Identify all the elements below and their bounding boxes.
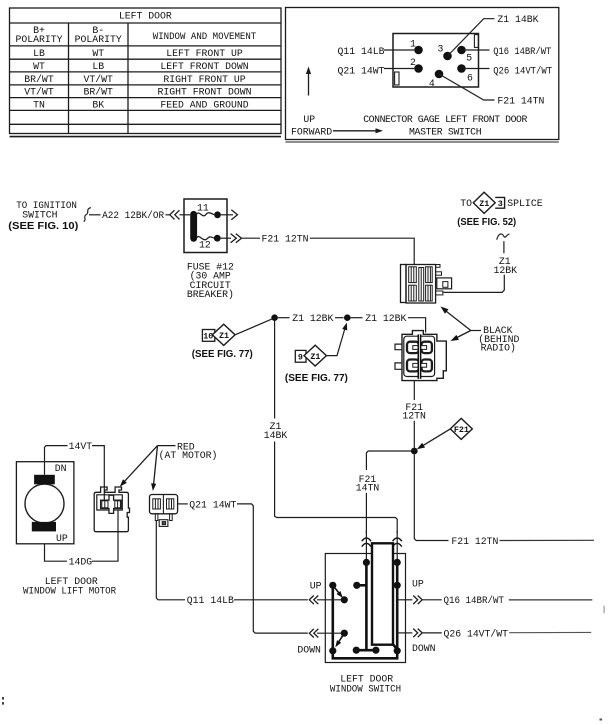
svg-text:RADIO): RADIO): [481, 342, 516, 353]
connector gage right notch: [474, 35, 478, 48]
svg-text:Q11 14LB: Q11 14LB: [338, 46, 385, 57]
svg-text:RIGHT FRONT UP: RIGHT FRONT UP: [163, 74, 245, 85]
arrow to 2-way mini connector: [154, 446, 158, 485]
svg-text:F21: F21: [454, 425, 469, 435]
svg-text:Q11 14LB: Q11 14LB: [187, 595, 234, 606]
switch right bus Z1: [396, 562, 399, 651]
switch down contact lever: [338, 633, 344, 643]
svg-text:UP: UP: [56, 533, 68, 544]
svg-text:2: 2: [410, 57, 416, 68]
svg-text:WT: WT: [92, 48, 104, 59]
svg-text:DN: DN: [55, 463, 67, 474]
wire Z1 12BK from splice to radio connector: [503, 241, 505, 253]
wire F21 14TN from junction to switch: [366, 451, 411, 470]
svg-text:WINDOW SWITCH: WINDOW SWITCH: [330, 683, 401, 694]
wire Z1 12BK run: [278, 317, 290, 319]
motor armature circle: [25, 484, 64, 523]
svg-text:6: 6: [467, 72, 473, 83]
table: left door polarity table: [10, 8, 282, 137]
wire Q11 14LB from mini connector to switch: [156, 521, 185, 600]
svg-text:DOWN: DOWN: [297, 644, 321, 655]
fuse bottom terminal: [214, 235, 221, 242]
breaker wave to bottom terminal: [197, 237, 214, 240]
wire Z1 14BK vertical to switch: [274, 321, 276, 419]
4-way connector pins: [407, 342, 432, 372]
svg-text:(SEE FIG. 77): (SEE FIG. 77): [192, 349, 253, 360]
svg-text:POLARITY: POLARITY: [15, 34, 62, 45]
svg-text:(SEE FIG. 10): (SEE FIG. 10): [8, 221, 78, 232]
svg-text:14DG: 14DG: [69, 557, 93, 568]
2-way motor connector: [94, 487, 129, 532]
wire pin 3 to Z1 14BK: [448, 19, 495, 56]
svg-text:F21 14TN: F21 14TN: [497, 95, 544, 106]
wire Q11 14LB to pin 1: [384, 49, 414, 51]
svg-text:VT/WT: VT/WT: [83, 74, 113, 85]
wire F21 12TN from fuse to radio connector: [242, 237, 261, 239]
svg-text:(AT MOTOR): (AT MOTOR): [159, 450, 218, 461]
svg-text:3: 3: [498, 199, 503, 209]
switch left bus: [331, 585, 334, 651]
pin 6: [457, 64, 466, 73]
svg-text:DOWN: DOWN: [412, 643, 436, 654]
arrow to radio connector: [444, 310, 471, 331]
window switch box: [325, 554, 405, 663]
svg-text:12: 12: [199, 240, 211, 251]
svg-text:CONNECTOR GAGE LEFT FRONT DOOR: CONNECTOR GAGE LEFT FRONT DOOR: [363, 114, 527, 125]
window lift motor box: [16, 462, 74, 544]
svg-text:12TN: 12TN: [402, 410, 426, 421]
circuit breaker element bar: [190, 211, 197, 242]
svg-text:Q16 14BR/WT: Q16 14BR/WT: [493, 46, 551, 57]
svg-text:Z1: Z1: [479, 199, 489, 209]
svg-text:BR/WT: BR/WT: [24, 74, 54, 85]
svg-text:SWITCH: SWITCH: [22, 210, 57, 221]
svg-text:POLARITY: POLARITY: [75, 34, 122, 45]
label red at motor: [158, 445, 176, 447]
wire pin 5 to Q16 14BR/WT: [466, 49, 490, 51]
wire break squiggle on Z1 lead: [497, 234, 510, 240]
svg-text:14TN: 14TN: [356, 482, 380, 493]
svg-text:12BK: 12BK: [494, 265, 518, 276]
svg-text:Q26 14VT/WT: Q26 14VT/WT: [444, 628, 509, 639]
splice number box 3: [495, 197, 504, 208]
switch actuator slide: [372, 543, 393, 644]
junction node Z1 splice point 1: [271, 314, 278, 321]
svg-text:SPLICE: SPLICE: [507, 198, 542, 209]
wire pin 4 to F21 14TN: [439, 74, 495, 100]
pin 5: [457, 46, 466, 55]
radio connector (6 cavity, black behind radio): [401, 265, 452, 304]
svg-text:LB: LB: [33, 48, 45, 59]
junction node F21: [411, 448, 418, 455]
wire break squiggle: [84, 208, 91, 222]
svg-text:11: 11: [197, 203, 209, 214]
svg-text:Z1 14BK: Z1 14BK: [497, 14, 538, 25]
splice reference diamond F21: [450, 418, 472, 439]
scan specks: [2, 697, 4, 700]
wire A22 12BK/OR: [89, 214, 101, 216]
switch up contact lever: [333, 585, 341, 595]
svg-text:(SEE FIG. 77): (SEE FIG. 77): [285, 373, 348, 384]
wire F21 12TN from junction to right: [414, 454, 448, 540]
motor brush bottom: [32, 522, 56, 532]
arrow to 2-way connector: [123, 446, 158, 483]
svg-text:FEED AND GROUND: FEED AND GROUND: [160, 99, 248, 110]
svg-text:BK: BK: [92, 99, 104, 110]
connector gage body: [393, 34, 479, 88]
svg-text:A22 12BK/OR: A22 12BK/OR: [102, 210, 164, 221]
mini connector red at motor: [150, 495, 178, 527]
svg-text:WINDOW AND MOVEMENT: WINDOW AND MOVEMENT: [153, 31, 257, 42]
wire 14DG motor ground: [45, 544, 68, 561]
2-way connector pin hatches: [102, 501, 121, 508]
frame around connector gage view: [286, 8, 559, 143]
pin 1: [414, 46, 423, 55]
fuse bottom output chevrons: [221, 237, 231, 239]
svg-text:Q16 14BR/WT: Q16 14BR/WT: [444, 595, 505, 606]
svg-text:Z1 12BK: Z1 12BK: [292, 313, 333, 324]
wire 14VT motor feed: [45, 446, 68, 475]
radio connector cavity hatches: [409, 267, 433, 301]
svg-text:WT: WT: [33, 61, 45, 72]
svg-text:TO: TO: [460, 198, 472, 209]
up arrow: [308, 73, 310, 96]
4-way connector black behind radio: [395, 331, 446, 381]
switch inner bus F21: [365, 562, 368, 650]
svg-text:1: 1: [410, 38, 416, 49]
connector gage left notch: [395, 72, 399, 85]
svg-text:Q21 14WT: Q21 14WT: [338, 65, 385, 76]
wire Q21 14WT from mini connector to switch: [178, 503, 188, 505]
svg-text:BREAKER): BREAKER): [187, 289, 234, 300]
breaker wave to top terminal: [197, 213, 215, 216]
switch bottom bus: [333, 650, 397, 658]
svg-text:Z1 12BK: Z1 12BK: [365, 313, 406, 324]
pin 2: [414, 64, 423, 73]
inline connector chevrons Z1 input: [393, 538, 402, 541]
splice symbol diamond Z1: [473, 192, 495, 213]
svg-text:MASTER SWITCH: MASTER SWITCH: [409, 126, 482, 137]
junction node Z1 splice point 2: [344, 314, 351, 321]
wire stubs into switch: [365, 531, 367, 562]
motor brush top: [34, 475, 55, 485]
inline connector chevrons at fuse input: [170, 210, 175, 219]
svg-text:LB: LB: [92, 61, 104, 72]
svg-text:VT/WT: VT/WT: [24, 87, 54, 98]
pin 3: [443, 52, 452, 61]
svg-text:5: 5: [466, 52, 472, 63]
svg-text:14BK: 14BK: [264, 430, 288, 441]
svg-text:LEFT FRONT UP: LEFT FRONT UP: [166, 48, 243, 59]
svg-text:Q26 14VT/WT: Q26 14VT/WT: [493, 65, 552, 76]
svg-text:4: 4: [429, 78, 435, 89]
svg-text:FORWARD: FORWARD: [291, 126, 332, 137]
svg-text:10: 10: [203, 332, 213, 342]
svg-text:9: 9: [298, 353, 303, 363]
svg-text:F21 12TN: F21 12TN: [451, 536, 498, 547]
svg-text:WINDOW LIFT MOTOR: WINDOW LIFT MOTOR: [23, 586, 116, 597]
svg-text:Z1: Z1: [310, 352, 320, 362]
switch terminals: [363, 559, 370, 566]
svg-text:Q21 14WT: Q21 14WT: [189, 499, 236, 510]
svg-text:BR/WT: BR/WT: [83, 87, 113, 98]
fuse top terminal: [214, 211, 221, 218]
svg-text:TN: TN: [33, 99, 45, 110]
svg-text:3: 3: [438, 43, 444, 54]
wire Q21 14WT to pin 2: [384, 68, 414, 70]
svg-text:UP: UP: [303, 114, 315, 125]
svg-text:14VT: 14VT: [69, 441, 93, 452]
pin 4: [435, 70, 444, 79]
svg-text:RIGHT FRONT DOWN: RIGHT FRONT DOWN: [157, 87, 251, 98]
svg-text:LEFT FRONT DOWN: LEFT FRONT DOWN: [160, 61, 248, 72]
splice reference diamond Z1 fig 77 middle: [295, 350, 306, 362]
arrow to 4-way connector: [455, 331, 471, 339]
svg-text:F21 12TN: F21 12TN: [262, 234, 309, 245]
inline connector chevrons F21 input: [362, 538, 371, 541]
svg-text:UP: UP: [412, 579, 424, 590]
svg-text:Z1: Z1: [219, 331, 229, 341]
fuse top output arrow: [221, 214, 233, 216]
mini connector pin hatches: [153, 499, 174, 509]
4-way connector centre bar: [418, 334, 422, 378]
svg-text:UP: UP: [310, 580, 322, 591]
svg-text:LEFT DOOR: LEFT DOOR: [119, 11, 172, 22]
wire pin 6 to Q26 14VT/WT: [466, 68, 490, 70]
splice reference diamond Z1 fig 77 left: [202, 330, 214, 342]
wire F21 12TN from 4-way connector down: [413, 381, 415, 400]
fuse #12 box: [184, 199, 227, 253]
svg-text:(SEE FIG. 52): (SEE FIG. 52): [457, 217, 516, 228]
